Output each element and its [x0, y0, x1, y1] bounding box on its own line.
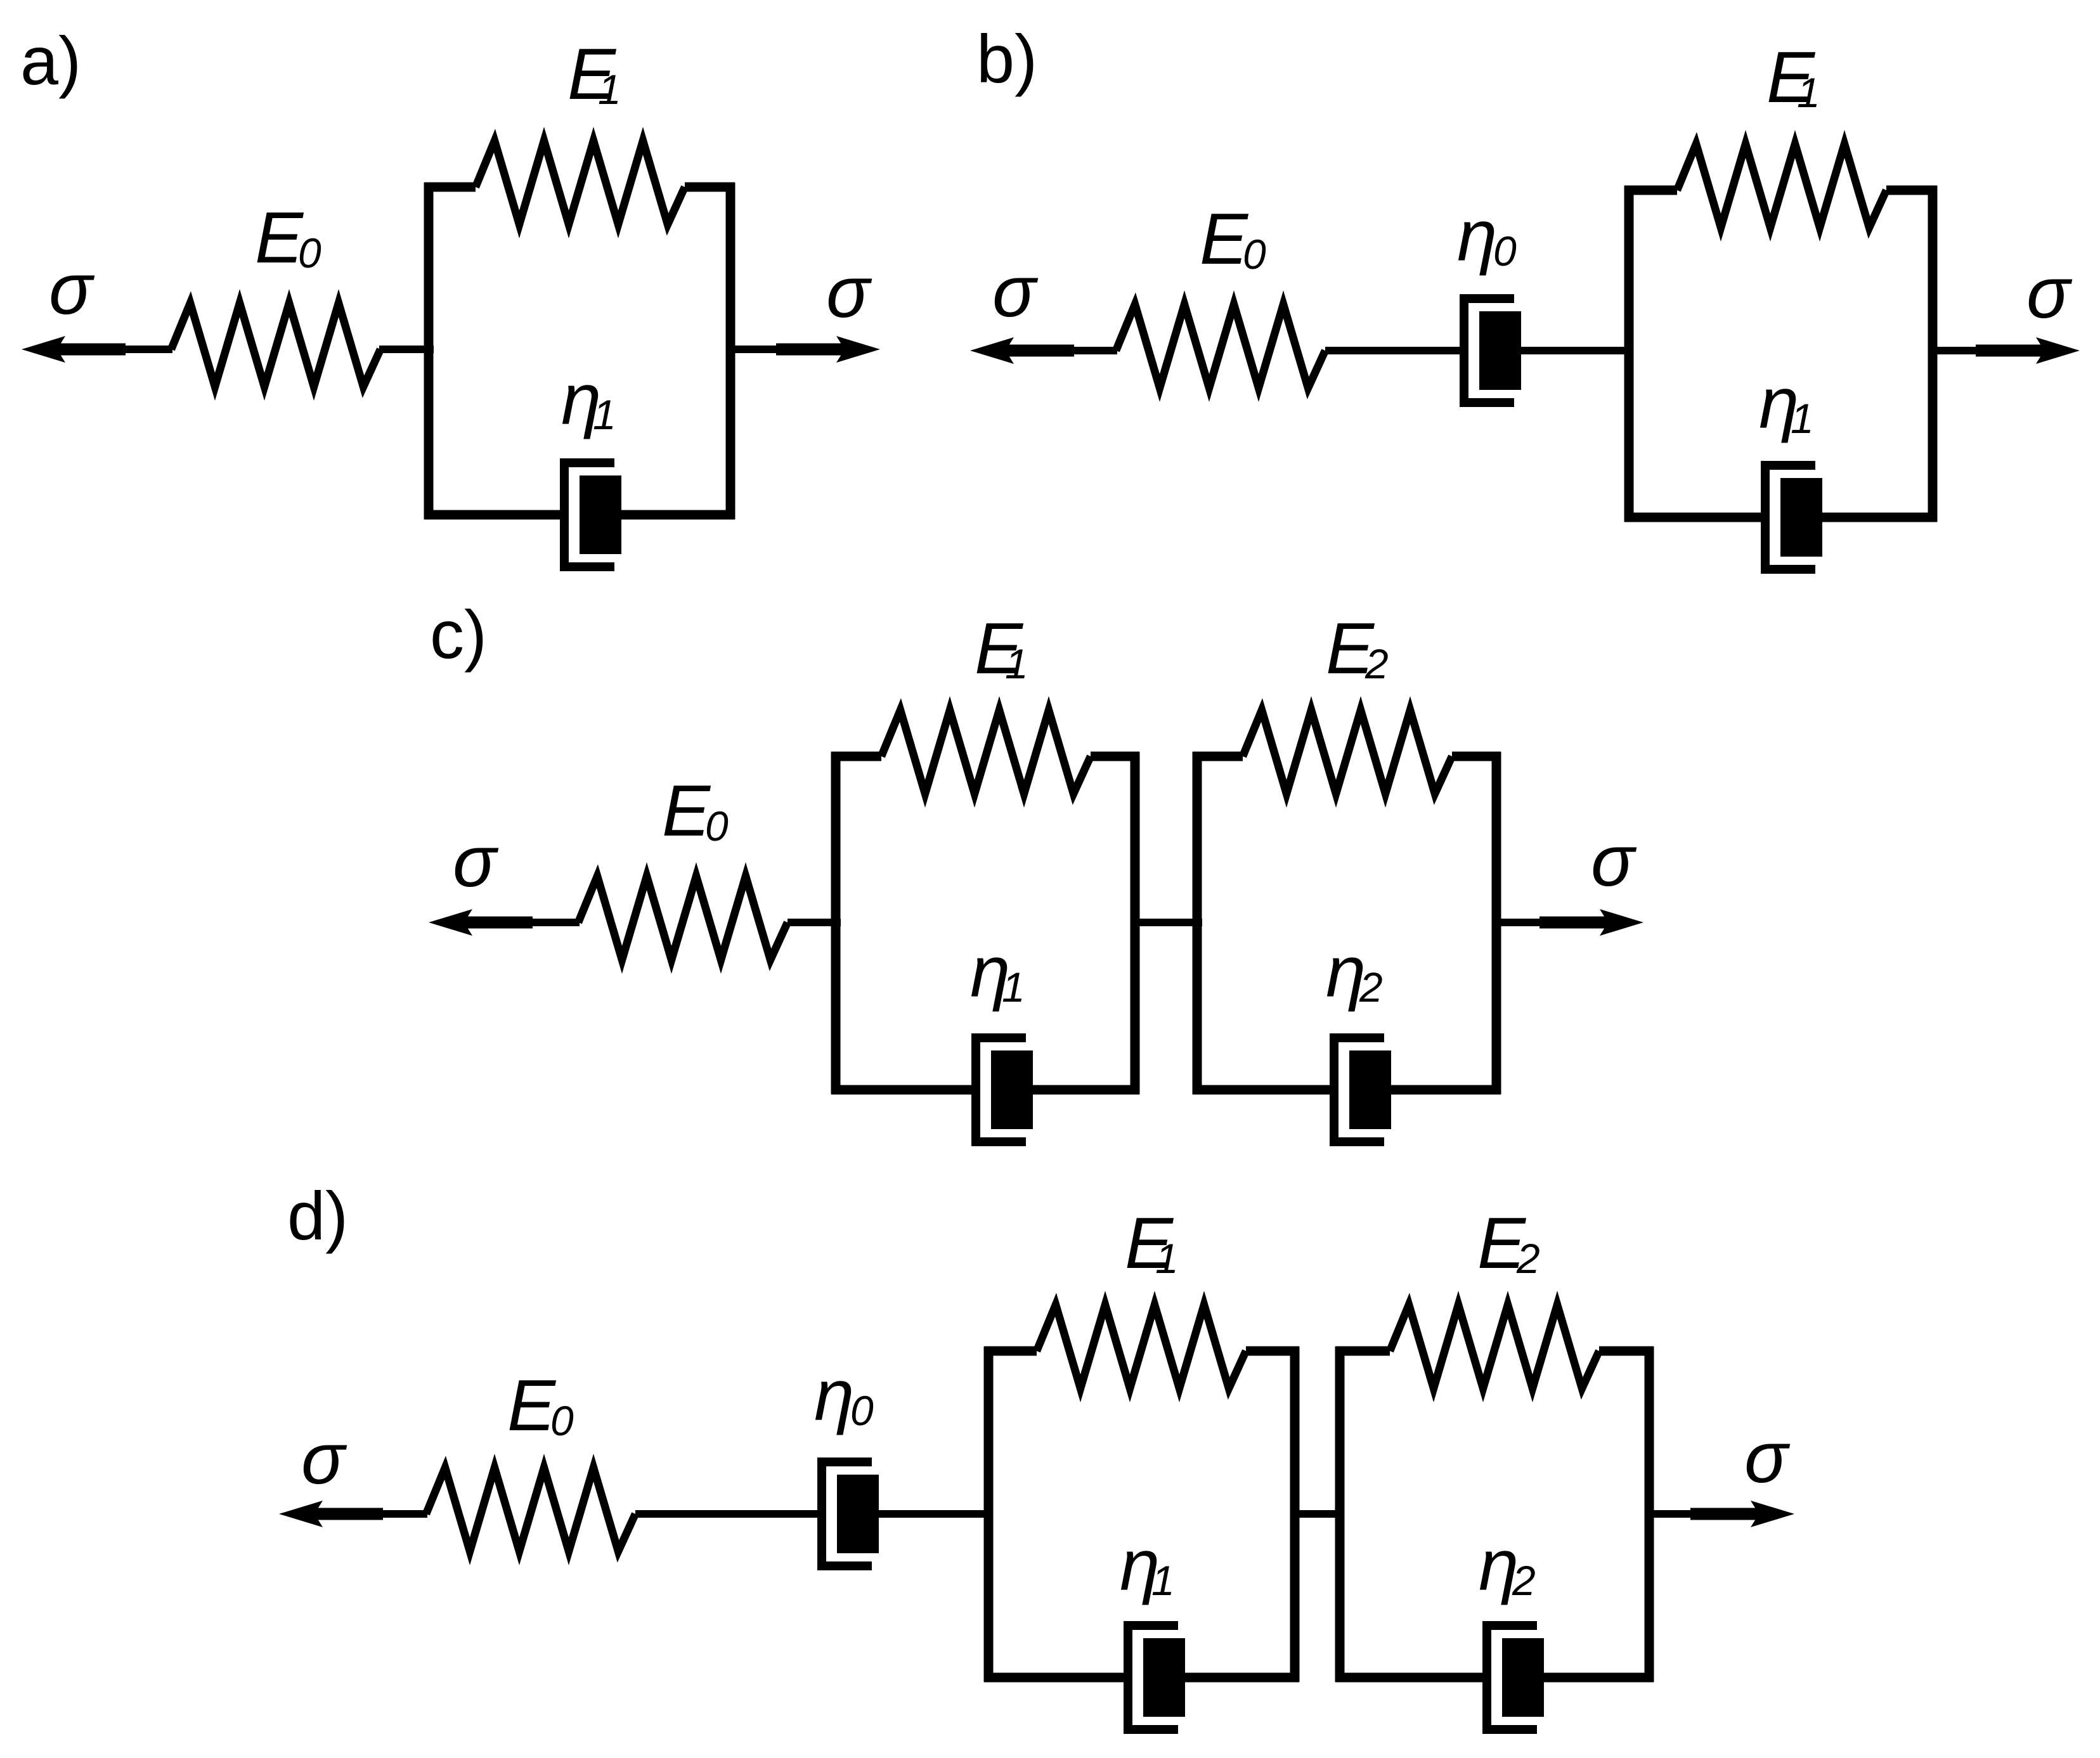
svg-text:σ: σ — [1744, 1418, 1791, 1498]
block b (E1 parallel eta1) bottom-right wire — [1821, 513, 1937, 522]
svg-text:0: 0 — [705, 803, 729, 850]
block b (E1 parallel eta1) top-right wire — [1886, 186, 1937, 195]
svg-text:1: 1 — [1005, 640, 1028, 687]
stress arrow (b, left) — [970, 337, 1074, 364]
block c2 (E2 parallel eta2) bottom-right wire — [1390, 1085, 1501, 1095]
spring E0 (d) — [426, 1468, 635, 1551]
svg-text:1: 1 — [1155, 1235, 1179, 1282]
block d1 (E1 parallel eta1) top-right wire — [1246, 1347, 1299, 1356]
wire spring-to-dashpot (b) — [1325, 347, 1464, 354]
spring E0 (c) — [578, 876, 787, 960]
svg-text:b): b) — [976, 20, 1037, 97]
svg-text:σ: σ — [49, 249, 95, 330]
dashpot eta1 (b) — [1765, 465, 1822, 569]
block c1 (E1 parallel eta1) left vertical wire — [831, 752, 841, 1094]
block d2 (E2 parallel eta2) bottom-left wire — [1335, 1673, 1487, 1683]
svg-text:1: 1 — [593, 391, 616, 438]
stress arrow (c, left) — [429, 909, 533, 936]
svg-text:0: 0 — [850, 1387, 874, 1434]
wire block1-to-block2 (c) — [1135, 919, 1202, 926]
block d1 (E1 parallel eta1) top-left wire — [984, 1347, 1037, 1356]
dashpot eta2 (d) — [1487, 1626, 1544, 1729]
svg-text:E: E — [662, 771, 711, 851]
wire dashpot-to-block1 (d) — [878, 1510, 993, 1518]
block c2 (E2 parallel eta2) top-right wire — [1452, 752, 1501, 761]
wire block2-to-arrow (d) — [1649, 1510, 1709, 1518]
block b (E1 parallel eta1) left vertical wire — [1624, 186, 1634, 522]
svg-text:1: 1 — [1791, 395, 1814, 442]
svg-text:E: E — [1200, 199, 1249, 280]
svg-text:c): c) — [430, 596, 487, 673]
block c1 (E1 parallel eta1) top-right wire — [1091, 752, 1139, 761]
wire spring-to-block1 (c) — [787, 919, 841, 926]
stress arrow (d, left) — [279, 1501, 383, 1527]
wire arrow-to-spring (d) — [378, 1510, 427, 1518]
svg-text:η: η — [814, 1355, 854, 1436]
svg-text:a): a) — [20, 22, 81, 99]
svg-text:σ: σ — [453, 822, 499, 902]
svg-text:1: 1 — [1797, 69, 1820, 116]
spring E1 (d) — [1037, 1305, 1246, 1388]
block b (E1 parallel eta1) bottom-left wire — [1624, 513, 1765, 522]
block c1 (E1 parallel eta1) bottom-left wire — [831, 1085, 976, 1095]
svg-text:σ: σ — [301, 1419, 347, 1499]
svg-text:E: E — [507, 1366, 557, 1446]
block d2 (E2 parallel eta2) bottom-right wire — [1543, 1673, 1654, 1683]
svg-text:σ: σ — [826, 252, 872, 333]
dashpot eta1 (c) — [976, 1038, 1033, 1142]
svg-text:η: η — [1457, 196, 1497, 276]
svg-text:2: 2 — [1359, 964, 1383, 1011]
svg-text:1: 1 — [598, 66, 621, 113]
block c1 (E1 parallel eta1) top-left wire — [831, 752, 881, 761]
block a (E1 parallel eta1) right vertical wire — [726, 183, 736, 519]
dashpot eta0 (d) — [822, 1462, 879, 1566]
svg-text:0: 0 — [1493, 228, 1517, 275]
stress arrow (c, right) — [1539, 909, 1643, 936]
block d2 (E2 parallel eta2) right vertical wire — [1645, 1347, 1654, 1682]
dashpot eta2 (c) — [1334, 1038, 1391, 1142]
wire spring-to-dashpot (d) — [635, 1510, 822, 1518]
wire block2-to-arrow (c) — [1496, 919, 1555, 926]
block d2 (E2 parallel eta2) top-right wire — [1599, 1347, 1654, 1356]
wire block1-to-block2 (d) — [1295, 1510, 1344, 1518]
spring E1 (b) — [1677, 144, 1886, 228]
svg-text:E: E — [255, 198, 304, 278]
dashpot eta1 (a) — [564, 463, 621, 567]
block a (E1 parallel eta1) top-left wire — [424, 183, 476, 192]
block b (E1 parallel eta1) top-left wire — [1624, 186, 1677, 195]
wire block-to-arrow (b) — [1933, 347, 1991, 354]
stress arrow (a, right) — [776, 336, 880, 363]
block a (E1 parallel eta1) left vertical wire — [424, 183, 434, 519]
svg-text:σ: σ — [2026, 253, 2073, 333]
dashpot eta0 (b) — [1464, 299, 1521, 403]
block d1 (E1 parallel eta1) bottom-left wire — [984, 1673, 1128, 1683]
wire block-to-arrow (a) — [730, 346, 791, 353]
spring E2 (c) — [1243, 710, 1452, 794]
stress arrow (d, right) — [1690, 1501, 1794, 1527]
svg-text:2: 2 — [1516, 1235, 1540, 1282]
svg-text:σ: σ — [992, 252, 1039, 332]
spring E1 (a) — [476, 141, 685, 224]
block c2 (E2 parallel eta2) left vertical wire — [1193, 752, 1202, 1094]
wire spring-to-block (a) — [379, 346, 434, 353]
block d1 (E1 parallel eta1) bottom-right wire — [1184, 1673, 1299, 1683]
svg-text:1: 1 — [1151, 1557, 1175, 1604]
spring E0 (a) — [171, 303, 380, 387]
block d2 (E2 parallel eta2) left vertical wire — [1335, 1347, 1345, 1682]
dashpot eta1 (d) — [1128, 1626, 1185, 1729]
block d1 (E1 parallel eta1) right vertical wire — [1290, 1347, 1300, 1682]
svg-text:0: 0 — [1243, 231, 1266, 278]
block d2 (E2 parallel eta2) top-left wire — [1335, 1347, 1390, 1356]
block c2 (E2 parallel eta2) right vertical wire — [1492, 752, 1501, 1094]
block a (E1 parallel eta1) top-right wire — [685, 183, 735, 192]
block c1 (E1 parallel eta1) right vertical wire — [1131, 752, 1140, 1094]
svg-text:1: 1 — [1002, 964, 1025, 1011]
wire arrow-to-spring (b) — [1069, 347, 1117, 354]
spring E1 (c) — [881, 710, 1091, 794]
wire dashpot-to-block (b) — [1520, 347, 1633, 354]
block c2 (E2 parallel eta2) top-left wire — [1193, 752, 1243, 761]
block a (E1 parallel eta1) bottom-left wire — [424, 510, 564, 520]
svg-text:2: 2 — [1512, 1557, 1536, 1604]
block c2 (E2 parallel eta2) bottom-left wire — [1193, 1085, 1334, 1095]
block d1 (E1 parallel eta1) left vertical wire — [984, 1347, 994, 1682]
stress arrow (a, left) — [22, 336, 126, 363]
svg-text:2: 2 — [1364, 640, 1389, 687]
spring E2 (d) — [1390, 1305, 1599, 1388]
block c1 (E1 parallel eta1) bottom-right wire — [1032, 1085, 1139, 1095]
svg-text:d): d) — [287, 1177, 348, 1254]
svg-text:0: 0 — [298, 229, 321, 276]
wire arrow-to-spring (c) — [528, 919, 580, 926]
block b (E1 parallel eta1) right vertical wire — [1928, 186, 1938, 522]
svg-text:0: 0 — [550, 1397, 574, 1444]
svg-text:σ: σ — [1591, 821, 1637, 902]
stress arrow (b, right) — [1976, 337, 2080, 364]
block a (E1 parallel eta1) bottom-right wire — [620, 510, 735, 520]
spring E0 (b) — [1116, 304, 1325, 388]
wire arrow-to-spring (a) — [120, 346, 172, 353]
